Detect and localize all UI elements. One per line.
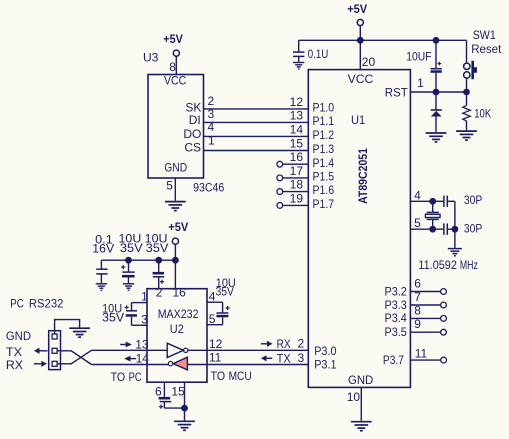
svg-text:4: 4 <box>208 120 215 134</box>
svg-text:P3.4: P3.4 <box>385 311 408 325</box>
svg-text:16V: 16V <box>92 242 114 256</box>
wire U3 CS to U1 P1.3, pin 1 <box>204 134 309 151</box>
wire U3 pin 5 to ground <box>174 178 176 201</box>
svg-text:P1.5: P1.5 <box>313 170 335 184</box>
svg-text:3: 3 <box>298 351 305 365</box>
svg-text:18: 18 <box>290 178 304 192</box>
wire from U2 pin 14 <box>92 352 150 366</box>
ground (U2 pin 15) <box>174 421 195 430</box>
capacitor 0.1 16V <box>92 232 114 283</box>
wire to U2 pin 13 <box>92 338 149 352</box>
svg-text:3: 3 <box>141 312 148 326</box>
wire +5V rail <box>299 39 467 41</box>
svg-text:12: 12 <box>209 337 223 351</box>
svg-text:GND: GND <box>6 329 31 343</box>
svg-text:17: 17 <box>290 164 304 178</box>
svg-text:AT89C2051: AT89C2051 <box>356 148 370 204</box>
wire U2 pin 5 <box>207 312 223 326</box>
junction cap/pin15 <box>182 405 187 410</box>
svg-text:5: 5 <box>414 216 421 230</box>
wire P1.4 pin 16 <box>277 161 308 167</box>
capacitor C 30P (top) <box>444 193 482 207</box>
svg-text:6: 6 <box>414 277 421 291</box>
wire XTAL2 pin 5 <box>410 216 443 230</box>
labels P3.0 P3.1 <box>314 344 337 372</box>
svg-text:30P: 30P <box>464 221 482 235</box>
ground (U3) <box>165 202 186 211</box>
svg-text:5: 5 <box>166 178 173 192</box>
svg-text:SK: SK <box>185 100 201 114</box>
svg-text:6: 6 <box>155 384 162 398</box>
svg-text:35V: 35V <box>120 241 143 255</box>
svg-text:14: 14 <box>136 352 150 366</box>
svg-text:+5V: +5V <box>347 2 367 16</box>
wire +5V down to MAX232 pin 16 <box>174 244 176 288</box>
wire U2 pin 4 <box>207 289 223 303</box>
svg-text:1: 1 <box>141 289 148 303</box>
svg-text:RS232: RS232 <box>29 297 64 311</box>
wire P3.2 pin 6 <box>385 277 447 299</box>
P1.0-P1.7 labels <box>313 101 335 212</box>
svg-text:GND: GND <box>164 160 187 174</box>
wire U3 DI to U1 P1.1, pin 3 <box>204 107 309 122</box>
svg-text:MHz: MHz <box>460 258 478 272</box>
junction bus/C2 <box>126 258 131 263</box>
capacitor C 30P (bottom) <box>444 221 482 235</box>
capacitor 10U 35V (bus, +top) <box>119 232 143 284</box>
ground (0.1 16V) <box>96 284 107 291</box>
wire P3.5 pin 9 <box>385 317 447 339</box>
svg-text:20: 20 <box>362 55 376 69</box>
wire +5V down to rail <box>359 26 361 41</box>
svg-text:12: 12 <box>290 95 304 109</box>
svg-text:2: 2 <box>156 285 163 299</box>
svg-text:P3.3: P3.3 <box>385 298 408 312</box>
svg-text:2: 2 <box>298 337 305 351</box>
wire pin 20 <box>360 40 375 69</box>
capacitor 10U 35V (V+ pin 2) <box>145 232 169 289</box>
wire P1.6 pin 18 <box>277 189 308 195</box>
wire +5V bus <box>101 259 175 261</box>
wire crossover TX <box>57 351 91 365</box>
buffer T2 (pin 11 to 14, inverting shown filled) <box>147 357 187 370</box>
svg-text:14: 14 <box>290 122 304 136</box>
junction RST/switch/10K <box>464 89 469 94</box>
svg-text:P1.4: P1.4 <box>313 156 335 170</box>
ground (diode) <box>426 133 447 142</box>
capacitor 10UF <box>406 40 442 92</box>
svg-text:P1.7: P1.7 <box>313 197 335 211</box>
svg-text:MCU: MCU <box>229 369 252 383</box>
svg-text:PC: PC <box>10 297 24 311</box>
svg-text:TO: TO <box>211 369 226 383</box>
wire XTAL1 pin 4 <box>410 188 443 202</box>
svg-text:VCC: VCC <box>164 74 187 88</box>
wire P3.7 pin 11 <box>383 347 447 368</box>
svg-text:SW1: SW1 <box>473 28 496 42</box>
svg-text:+5V: +5V <box>163 32 183 46</box>
svg-text:10: 10 <box>347 390 361 404</box>
svg-text:P3.5: P3.5 <box>385 325 408 339</box>
wire connector GND to ground <box>55 320 80 334</box>
svg-text:P1.6: P1.6 <box>313 183 335 197</box>
node +5V (U3 supply) <box>163 32 183 57</box>
junction rail/pin20 <box>358 38 363 43</box>
connector J1 PC RS232 <box>49 331 61 370</box>
wire P1.7 pin 19 <box>277 203 308 209</box>
wire caps right side <box>454 201 456 229</box>
svg-text:15: 15 <box>171 384 185 398</box>
wire P3.3 pin 7 <box>385 290 447 312</box>
svg-text:P1.0: P1.0 <box>313 101 335 115</box>
svg-text:PC: PC <box>129 370 142 384</box>
svg-text:9: 9 <box>414 317 421 331</box>
svg-text:P3.2: P3.2 <box>385 284 408 298</box>
wire U1 GND pin 10 <box>347 387 362 421</box>
svg-text:1: 1 <box>208 134 215 148</box>
svg-text:13: 13 <box>135 338 149 352</box>
svg-text:VCC: VCC <box>348 72 374 86</box>
capacitor 10U 35V (pins 4-5) <box>216 276 236 325</box>
svg-text:P1.2: P1.2 <box>313 128 335 142</box>
svg-text:5: 5 <box>209 312 216 326</box>
wire P1.5 pin 17 <box>277 175 308 181</box>
svg-text:35V: 35V <box>146 241 169 255</box>
capacitor 0.1U <box>293 47 328 61</box>
svg-text:U2: U2 <box>170 322 184 336</box>
svg-text:3: 3 <box>208 107 215 121</box>
switch SW1 Reset <box>464 28 502 92</box>
svg-text:8: 8 <box>414 303 421 317</box>
svg-text:0.1U: 0.1U <box>308 47 329 61</box>
svg-text:10K: 10K <box>474 107 491 121</box>
svg-text:35V: 35V <box>216 285 234 299</box>
arrow TX out <box>34 348 48 354</box>
node +5V (U1 supply) <box>347 2 367 25</box>
wire RX: MAX232 pin 12 to U1 P3.0 pin 2 <box>188 337 308 351</box>
svg-text:U1: U1 <box>351 113 365 127</box>
svg-text:P3.0: P3.0 <box>314 344 337 358</box>
svg-text:P3.1: P3.1 <box>314 358 337 372</box>
wire U1 RST pin 1 <box>410 76 466 92</box>
svg-text:10UF: 10UF <box>406 49 431 63</box>
svg-text:RX: RX <box>6 358 23 372</box>
capacitor (pin 6, + bottom) <box>159 397 185 409</box>
svg-text:16: 16 <box>290 150 304 164</box>
node +5V (MAX232 supply) <box>168 220 188 244</box>
wire crossover RX <box>57 350 91 364</box>
wire U3 DO to U1 P1.2, pin 4 <box>204 120 309 136</box>
junction RST/10UF/diode <box>433 89 438 94</box>
svg-text:+5V: +5V <box>168 220 188 234</box>
svg-text:11.0592: 11.0592 <box>418 258 457 272</box>
svg-text:GND: GND <box>348 373 374 387</box>
wire C 0.1U to ground <box>298 56 300 62</box>
ground (connector) <box>69 328 90 337</box>
wire U2 pin 15 to ground <box>171 382 185 420</box>
svg-text:30P: 30P <box>464 193 482 207</box>
junction pin5/crystal <box>430 227 435 232</box>
svg-text:13: 13 <box>290 108 304 122</box>
arrow RX in <box>34 361 47 367</box>
junction bus/pin16 <box>173 258 178 263</box>
wire TX: MAX232 pin 11 to U1 P3.1 pin 3 <box>187 351 308 366</box>
diode D1 <box>431 92 442 132</box>
junction rail/10UF <box>433 38 438 43</box>
svg-text:MAX232: MAX232 <box>158 307 199 321</box>
ground (10K) <box>456 131 477 140</box>
wire P3.4 pin 8 <box>385 303 447 325</box>
svg-text:RX: RX <box>277 337 291 351</box>
wire to crystal ground <box>454 229 456 248</box>
capacitor 10U 35V (pins 1-3) <box>102 302 137 326</box>
svg-text:DO: DO <box>183 127 201 141</box>
pin numbers 12-19 <box>290 95 304 205</box>
svg-text:15: 15 <box>290 137 304 151</box>
svg-text:7: 7 <box>414 290 421 304</box>
svg-text:2: 2 <box>208 94 215 108</box>
svg-text:P1.3: P1.3 <box>313 142 335 156</box>
svg-text:8: 8 <box>169 60 176 74</box>
svg-text:4: 4 <box>414 188 421 202</box>
svg-text:P1.1: P1.1 <box>313 114 335 128</box>
svg-text:11: 11 <box>415 347 428 361</box>
resistor 10K <box>463 92 491 130</box>
ground (10U 35V bus) <box>123 284 134 291</box>
svg-text:P3.7: P3.7 <box>383 353 404 367</box>
ground (crystal) <box>448 249 462 256</box>
svg-text:TX: TX <box>277 351 291 365</box>
wire U2 pin 1 <box>132 289 149 303</box>
ground (U1 pin 10) <box>351 422 372 431</box>
svg-text:93C46: 93C46 <box>193 181 224 195</box>
junction pin4/crystal <box>430 199 435 204</box>
MCU U1 AT89C2051 box <box>308 70 410 388</box>
wire U3 SK to U1 P1.0, pin 2 <box>204 94 309 109</box>
wire +5V to U3 pin 8 <box>175 56 177 74</box>
svg-text:11: 11 <box>209 351 222 365</box>
svg-text:TO: TO <box>111 370 126 384</box>
junction bus/C3 <box>156 258 161 263</box>
ground (0.1U) <box>293 63 304 70</box>
svg-text:RST: RST <box>385 85 409 99</box>
junction caps/ground <box>452 227 457 232</box>
svg-text:Reset: Reset <box>471 42 502 56</box>
svg-text:1: 1 <box>417 76 424 90</box>
crystal Y1 <box>425 201 440 229</box>
buffer T1 (pin 13 to 12) <box>147 343 188 357</box>
svg-text:19: 19 <box>290 191 304 205</box>
svg-text:35V: 35V <box>102 311 124 325</box>
svg-text:U3: U3 <box>143 51 159 65</box>
svg-text:CS: CS <box>184 140 201 154</box>
svg-text:16: 16 <box>173 285 187 299</box>
wire U2 pin 6 to cap <box>155 382 164 398</box>
svg-text:DI: DI <box>189 113 201 127</box>
driver U2 MAX232 box <box>147 289 207 383</box>
wire U2 pin 3 <box>132 312 149 326</box>
wire rail to C 0.1U <box>298 40 300 51</box>
EEPROM U3 93C46 <box>143 51 224 195</box>
